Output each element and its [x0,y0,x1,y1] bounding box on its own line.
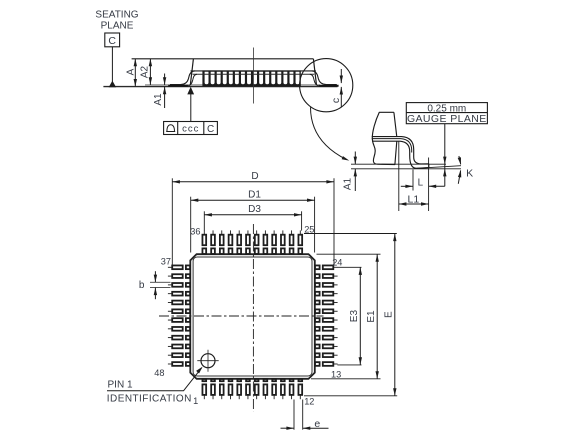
svg-text:C: C [207,124,214,135]
svg-text:48: 48 [154,368,164,378]
svg-text:PLANE: PLANE [101,20,134,31]
svg-text:SEATING: SEATING [95,10,138,21]
svg-text:D1: D1 [248,189,261,200]
svg-text:25: 25 [304,225,314,235]
svg-text:IDENTIFICATION: IDENTIFICATION [107,393,192,404]
svg-text:c: c [330,98,342,103]
svg-text:24: 24 [332,258,342,268]
svg-text:E: E [384,311,395,318]
svg-text:D3: D3 [248,204,261,215]
svg-text:36: 36 [190,226,200,236]
svg-text:37: 37 [161,256,171,266]
svg-text:L: L [418,177,424,188]
svg-text:12: 12 [304,396,314,406]
svg-text:E1: E1 [366,310,377,323]
svg-text:D: D [251,171,258,182]
svg-text:1: 1 [193,396,198,406]
svg-text:A2: A2 [139,65,150,78]
svg-text:A: A [126,68,137,75]
svg-text:ccc: ccc [182,124,199,135]
svg-text:13: 13 [331,369,341,379]
svg-text:K: K [466,167,473,179]
svg-text:A1: A1 [153,93,164,106]
svg-text:b: b [139,280,145,291]
svg-text:C: C [108,35,116,47]
svg-text:E3: E3 [349,310,360,323]
svg-text:e: e [314,418,320,430]
svg-text:L1: L1 [408,193,420,205]
svg-text:A1: A1 [342,177,353,190]
svg-text:PIN 1: PIN 1 [108,380,133,391]
svg-text:GAUGE PLANE: GAUGE PLANE [407,113,487,125]
